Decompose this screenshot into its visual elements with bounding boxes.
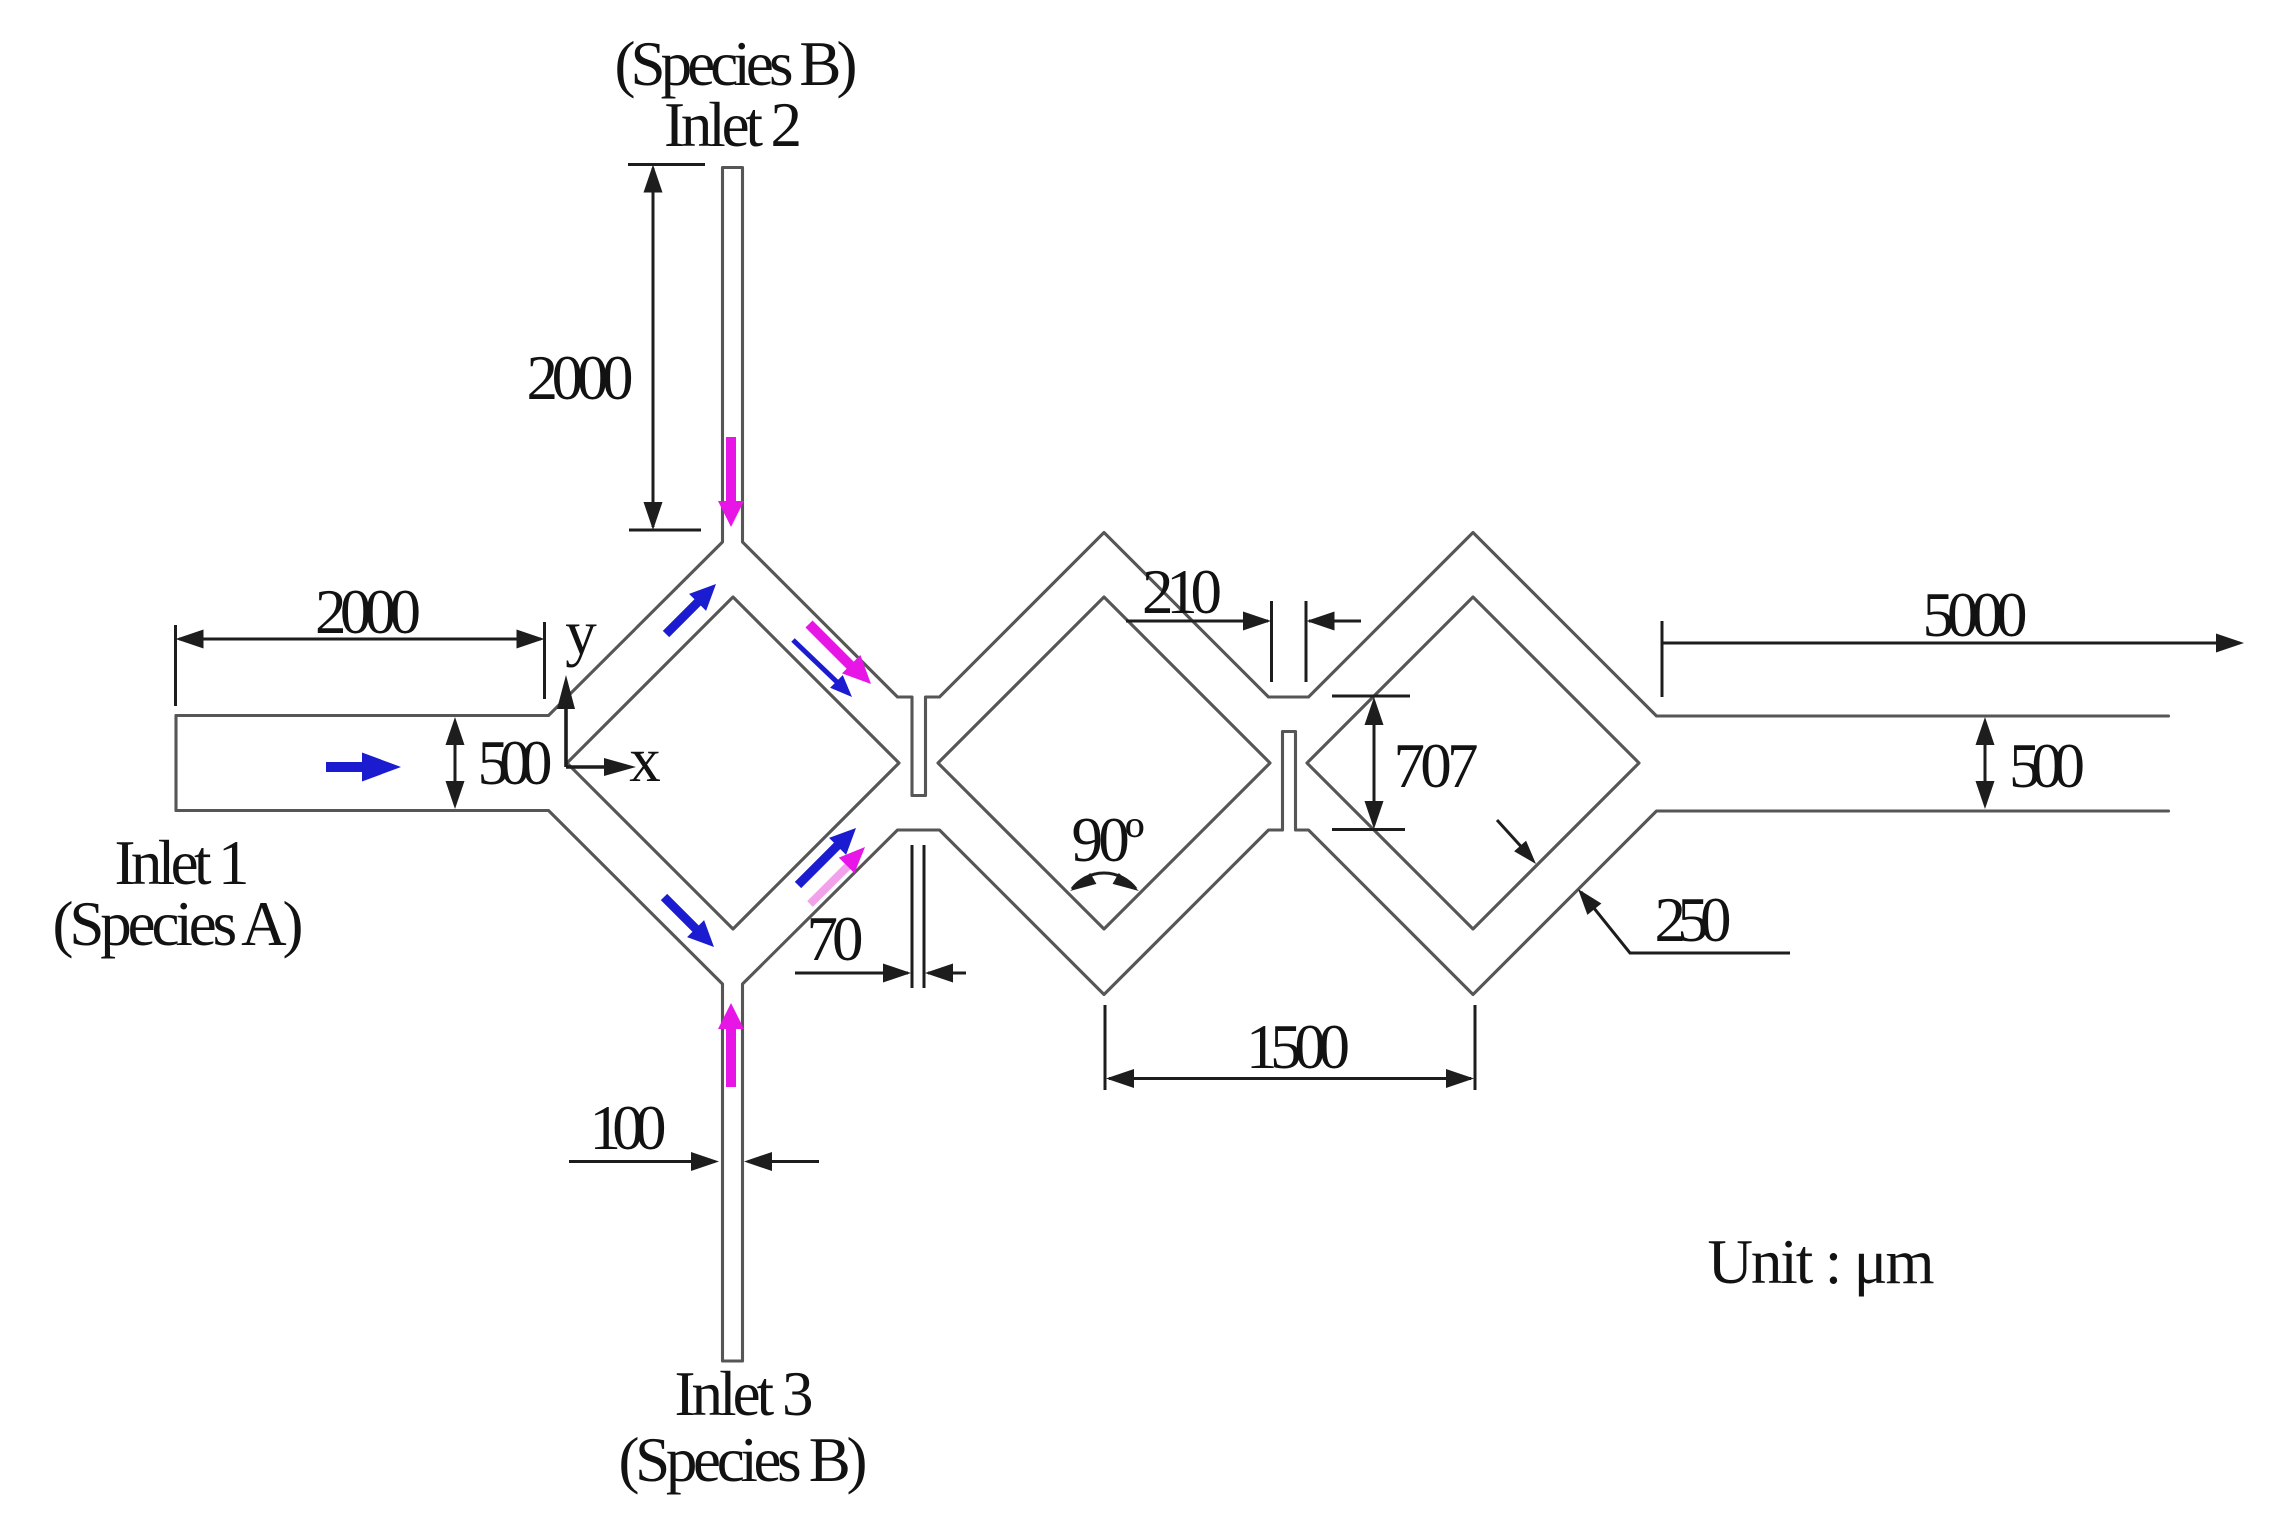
flow arrow blue inlet 1 bbox=[326, 753, 401, 782]
svg-text:2000: 2000 bbox=[315, 577, 421, 647]
arrowhead 70 left bbox=[883, 964, 911, 983]
x axis arrowhead bbox=[604, 758, 636, 776]
arrowhead 1500 right bbox=[1446, 1069, 1474, 1088]
arrowhead 1500 left bbox=[1106, 1069, 1134, 1088]
svg-text:Inlet 2: Inlet 2 bbox=[664, 90, 802, 160]
arrowhead 100 left bbox=[691, 1152, 719, 1171]
dimension 70: dimension lines bbox=[795, 972, 966, 975]
angle 90 deg arc bbox=[1072, 873, 1136, 889]
dimension 500 left: arrow line bbox=[454, 722, 457, 805]
svg-text:500: 500 bbox=[478, 728, 553, 798]
flow arrow magenta pale lower-right branch (up-right) bbox=[810, 847, 865, 904]
arrowhead 707 bottom bbox=[1365, 801, 1384, 829]
arrowhead 90deg arc left bbox=[1070, 873, 1096, 891]
svg-text:Inlet 1: Inlet 1 bbox=[115, 828, 250, 898]
arrowhead 210 left bbox=[1243, 612, 1271, 631]
arrowhead 500-right bottom bbox=[1976, 781, 1995, 809]
dimension 2000 horizontal: dimension line bbox=[179, 638, 541, 641]
dimension 210: dimension lines bbox=[1126, 620, 1361, 623]
svg-text:100: 100 bbox=[590, 1093, 667, 1163]
arrowhead 500-left top bbox=[446, 717, 465, 745]
dimension 5000: extension tick bbox=[1661, 621, 1664, 697]
svg-text:90º: 90º bbox=[1072, 805, 1145, 875]
x axis arrow shaft bbox=[566, 765, 606, 769]
dimension 707: extension ticks bbox=[1332, 696, 1410, 830]
arrowhead 5000 right bbox=[2216, 634, 2244, 653]
arrowhead 500-left bottom bbox=[446, 781, 465, 809]
wire: channel top outer wall (inlet 1 to outlet, incl. inlet-2 stub and J1 baffle) bbox=[176, 168, 2169, 796]
dimension 2000 horizontal: extension lines bbox=[176, 622, 545, 706]
y axis arrowhead bbox=[557, 675, 575, 709]
svg-text:(Species A): (Species A) bbox=[53, 889, 304, 959]
svg-text:Inlet 3: Inlet 3 bbox=[675, 1359, 814, 1429]
svg-text:500: 500 bbox=[2009, 731, 2085, 801]
dimension 2000 vertical (inlet 2): dimension line bbox=[652, 168, 655, 527]
svg-text:Unit : μm: Unit : μm bbox=[1708, 1227, 1935, 1297]
dimension 707: arrow line bbox=[1373, 701, 1376, 825]
flow arrow blue lower-left branch (down-right) bbox=[664, 897, 714, 947]
svg-text:1500: 1500 bbox=[1246, 1012, 1350, 1082]
arrowhead 2000-V top bbox=[644, 165, 663, 193]
arrowhead 100 right bbox=[744, 1152, 772, 1171]
arrowhead 707 top bbox=[1365, 697, 1384, 725]
dimension 210: extension lines bbox=[1272, 601, 1307, 682]
arrowhead 90deg arc right bbox=[1113, 873, 1139, 891]
y axis arrow shaft bbox=[564, 707, 568, 767]
arrowhead 2000-H left bbox=[176, 630, 204, 649]
svg-text:(Species B): (Species B) bbox=[615, 29, 858, 99]
arrowhead 2000-H right bbox=[517, 630, 545, 649]
island D1 (rhombic chamber 1 inner diamond) bbox=[567, 597, 899, 929]
wire: channel bottom outer wall (inlet 1 to outlet, incl. inlet-3 stub and J2 baffle) bbox=[176, 732, 2169, 1362]
dimension 5000: dimension line bbox=[1662, 642, 2240, 645]
dimension 1500: extension lines bbox=[1105, 1005, 1475, 1090]
axis arrows x-y at origin bbox=[566, 707, 606, 767]
arrowhead 70 right bbox=[925, 964, 953, 983]
svg-text:(Species B): (Species B) bbox=[619, 1425, 868, 1495]
arrowhead 210 right bbox=[1307, 612, 1335, 631]
island D3 (rhombic chamber 3 inner diamond) bbox=[1307, 597, 1639, 929]
black arrow at island D3 wall: shaft bbox=[1497, 820, 1526, 852]
svg-text:2000: 2000 bbox=[527, 343, 634, 413]
dimension 1500: dimension line bbox=[1109, 1077, 1471, 1080]
svg-text:5000: 5000 bbox=[1923, 580, 2028, 650]
island D2 (rhombic chamber 2 inner diamond) bbox=[938, 597, 1270, 929]
svg-text:210: 210 bbox=[1142, 557, 1222, 627]
flow arrow blue thin upper-right branch (down-right) bbox=[793, 640, 852, 697]
arrowhead black at island D3 wall bbox=[1514, 841, 1536, 864]
arrowhead 2000-V bottom bbox=[644, 502, 663, 530]
arrowhead 500-right top bbox=[1976, 717, 1995, 745]
flow arrow magenta inlet 3 (upward) bbox=[718, 1003, 744, 1087]
svg-text:250: 250 bbox=[1655, 885, 1732, 955]
leader line for 250 bbox=[1581, 892, 1790, 953]
wire: inlet 1 left end cap bbox=[174, 716, 177, 811]
arrowhead 250 leader bbox=[1578, 889, 1601, 915]
flow arrow blue upper-left branch (up-right) bbox=[666, 584, 716, 634]
svg-text:x: x bbox=[629, 725, 661, 795]
svg-text:70: 70 bbox=[807, 904, 864, 974]
dimension 500 right: arrow line bbox=[1984, 722, 1987, 805]
flow arrow magenta upper-right branch (down-right) bbox=[809, 624, 871, 684]
dimension 70: extension lines bbox=[912, 845, 924, 988]
svg-text:707: 707 bbox=[1394, 731, 1479, 801]
flow arrow blue lower-right branch (up-right) bbox=[798, 828, 856, 885]
svg-text:y: y bbox=[565, 598, 597, 668]
flow arrow magenta inlet 2 (downward) bbox=[718, 437, 744, 527]
dimension 100: dimension lines bbox=[569, 1160, 819, 1163]
dimension 2000 vertical (inlet 2): extension ticks bbox=[628, 165, 705, 531]
